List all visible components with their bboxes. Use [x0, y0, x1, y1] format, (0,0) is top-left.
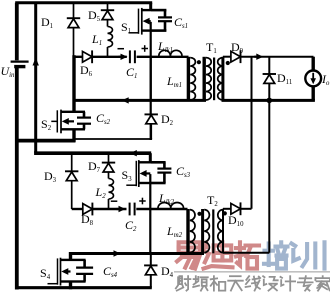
wire bus B vertical from input — [34, 151, 37, 155]
wire D3 branch — [71, 153, 73, 209]
wire output top — [241, 56, 314, 58]
label S2 — [41, 117, 52, 132]
wire left rail upper — [15, 3, 19, 61]
wire Lm1 left edge — [150, 57, 152, 140]
capacitor C1 — [130, 50, 135, 63]
svg-text:Lm1: Lm1 — [166, 74, 182, 89]
wire Lm2 left edge — [149, 209, 151, 254]
transformer T1 secondary — [218, 57, 223, 101]
wire D10 to riser — [241, 208, 252, 210]
diode D3 — [65, 171, 78, 180]
label C2 minus — [111, 200, 118, 202]
capacitor Cs2 — [77, 118, 91, 124]
svg-text:D10: D10 — [228, 213, 244, 228]
label Lm2 — [166, 224, 183, 239]
wire S3-Cs3 link — [150, 162, 165, 183]
wire D7 branch — [108, 153, 110, 178]
node primary dot 1 — [197, 60, 201, 64]
label L1 — [91, 32, 102, 47]
svg-text:Cs4: Cs4 — [103, 264, 118, 279]
label Lk1 — [157, 39, 173, 54]
svg-text:S2: S2 — [41, 117, 52, 132]
diode D7 — [102, 163, 115, 172]
current source Io — [305, 57, 321, 101]
arrow iL1 — [119, 54, 128, 60]
wire T2 secondary riser — [268, 101, 270, 253]
svg-text:C1: C1 — [126, 65, 137, 80]
diode D4 — [144, 254, 157, 288]
svg-text:D2: D2 — [161, 112, 174, 127]
svg-text:Lm2: Lm2 — [166, 224, 183, 239]
label C2 plus — [139, 198, 146, 205]
svg-text:D3: D3 — [44, 169, 57, 184]
svg-text:D6: D6 — [80, 63, 93, 78]
wire left rail lower — [15, 68, 19, 290]
capacitor C2 — [130, 203, 135, 216]
label T2 — [207, 193, 218, 208]
label Cs1 — [174, 15, 188, 30]
label D2 — [161, 112, 174, 127]
wire top rail — [15, 1, 152, 4]
voltage source Uin — [11, 62, 29, 67]
label Uin — [1, 64, 16, 79]
label S1 — [121, 20, 131, 35]
label C1 minus — [118, 48, 125, 50]
transformer T2 primary — [203, 209, 210, 254]
label C1 — [126, 65, 137, 80]
transistor Q S4 — [48, 258, 71, 286]
diode D10 — [231, 202, 241, 215]
diode D1 — [67, 18, 80, 27]
label T1 — [206, 40, 217, 55]
svg-text:Cs3: Cs3 — [176, 164, 191, 179]
label Lm1 — [166, 74, 182, 89]
inductor Lk1 — [159, 50, 182, 56]
node output junction — [267, 98, 273, 104]
wire primary bottom 1 — [74, 99, 206, 102]
diode D9 — [231, 50, 241, 63]
label Cs2 — [96, 111, 111, 126]
inductor Lk2 — [158, 203, 184, 209]
wire primary bottom 2 — [72, 252, 204, 255]
diode D5 — [101, 10, 114, 19]
label S4 — [40, 266, 51, 281]
node primary dot 2 — [197, 212, 201, 216]
capacitor Cs1 — [158, 17, 172, 21]
svg-text:D11: D11 — [277, 71, 292, 86]
wire output bottom — [222, 99, 315, 102]
inductor L1 — [108, 27, 113, 57]
arrow output current — [254, 54, 263, 60]
svg-text:D5: D5 — [88, 8, 101, 23]
wire secondary top lead 1 — [223, 56, 231, 58]
inductor L2 — [109, 179, 114, 210]
svg-text:S3: S3 — [122, 168, 133, 183]
node secondary dot 1 — [226, 61, 230, 65]
svg-text:Llk1: Llk1 — [157, 39, 173, 54]
arrow primary current 1 — [122, 97, 131, 103]
wire bus B — [34, 151, 151, 155]
wire S2 source drop — [72, 129, 75, 142]
capacitor Cs3 — [157, 169, 171, 173]
wire C2 row — [72, 208, 188, 210]
label C1 plus — [142, 45, 149, 52]
label D7 — [88, 159, 101, 174]
transformer T1 core — [213, 58, 215, 101]
wire S1-Cs1 link — [151, 10, 167, 31]
label D11 — [277, 71, 292, 86]
label Cs3 — [176, 164, 191, 179]
inductor Lm2 — [188, 209, 195, 254]
transistor Q S2 — [51, 110, 74, 134]
diode D8 — [83, 203, 93, 216]
label Lk2 — [158, 191, 175, 206]
svg-text:Uin: Uin — [1, 64, 16, 79]
transistor Q S1 — [129, 8, 151, 35]
inductor Lm1 — [188, 57, 195, 101]
wire S2 drain vertical — [72, 55, 75, 112]
diode D11 — [263, 57, 276, 101]
svg-text:C2: C2 — [125, 218, 137, 233]
svg-text:L1: L1 — [91, 32, 102, 47]
label D8 — [81, 212, 94, 227]
svg-text:Cs2: Cs2 — [96, 111, 111, 126]
wire S4 drain drop — [69, 252, 72, 260]
wire S4 source drop — [69, 282, 72, 290]
label Io — [321, 72, 330, 87]
svg-text:S1: S1 — [121, 20, 131, 35]
wire bus A — [15, 139, 75, 143]
label D3 — [44, 169, 57, 184]
wire S1 top corner — [149, 3, 152, 11]
wire secondary top lead 2 — [223, 208, 231, 210]
svg-text:L2: L2 — [95, 185, 107, 200]
label D6 — [80, 63, 93, 78]
wire D1 branch — [73, 3, 75, 57]
label D5 — [88, 8, 101, 23]
label D1 — [41, 15, 53, 30]
transformer T2 core — [212, 209, 214, 253]
diode D2 — [145, 114, 158, 123]
svg-text:T1: T1 — [206, 40, 217, 55]
wire S4-Cs4 link — [71, 260, 86, 282]
wire input branch vertical — [34, 3, 37, 153]
transformer T1 primary — [204, 57, 211, 101]
diode D6 — [83, 50, 93, 63]
wire C1 row — [73, 56, 189, 58]
svg-text:D4: D4 — [161, 264, 174, 279]
wire D10 riser — [251, 57, 253, 209]
svg-text:D7: D7 — [88, 159, 101, 174]
svg-text:D1: D1 — [41, 15, 53, 30]
wire S1 source drop — [150, 22, 152, 101]
label D9 — [231, 40, 244, 55]
svg-text:T2: T2 — [207, 193, 218, 208]
label D4 — [161, 264, 174, 279]
wire S2-Cs2 link — [74, 112, 85, 130]
wire bottom rail — [15, 286, 152, 289]
wire S3 source drop — [149, 174, 151, 209]
wire S3 top corner — [149, 153, 152, 163]
svg-text:Io: Io — [321, 72, 330, 87]
transistor Q S3 — [126, 160, 150, 187]
svg-text:Llk2: Llk2 — [158, 191, 175, 206]
svg-text:D9: D9 — [231, 40, 244, 55]
arrow primary current 2 — [112, 250, 121, 256]
arrow bus B current — [130, 150, 139, 156]
label L2 — [95, 185, 107, 200]
arrow input current up — [33, 58, 39, 66]
label C2 — [125, 218, 137, 233]
wire secondary bottom lead 2 — [223, 252, 269, 254]
label Cs4 — [103, 264, 118, 279]
svg-text:S4: S4 — [40, 266, 51, 281]
arrow iL2 — [117, 206, 126, 212]
svg-text:Cs1: Cs1 — [174, 15, 188, 30]
node secondary dot 2 — [223, 211, 227, 215]
wire D2 to clamp bus — [74, 123, 152, 139]
label S3 — [122, 168, 133, 183]
label D10 — [228, 213, 244, 228]
capacitor Cs4 — [76, 268, 93, 274]
wire D5 branch — [107, 3, 109, 27]
transformer T2 secondary — [218, 209, 223, 253]
